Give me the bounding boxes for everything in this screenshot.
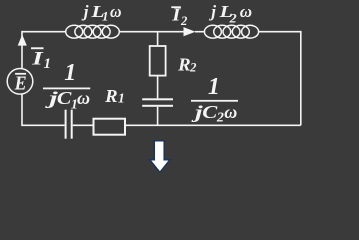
svg-text:2: 2 — [180, 14, 187, 28]
capacitor C1 plate left — [65, 110, 67, 139]
label R2 — [177, 55, 196, 75]
svg-text:ω: ω — [240, 2, 252, 21]
block arrow marker (down) — [150, 141, 170, 173]
svg-text:2: 2 — [216, 111, 224, 126]
svg-text:1: 1 — [102, 9, 109, 24]
current arrow I2 — [184, 27, 196, 36]
label 1/(jC1w) fraction — [43, 60, 90, 113]
svg-text:R: R — [104, 86, 118, 106]
capacitor C1 plate right — [71, 110, 73, 139]
current arrow I1 — [18, 35, 27, 46]
wire: segment (arrow to L2) — [195, 31, 204, 33]
svg-text:R: R — [177, 55, 191, 75]
svg-text:1: 1 — [208, 74, 220, 100]
wire: middle branch top (tee to R2) — [157, 32, 159, 46]
resistor R1 — [94, 119, 126, 135]
capacitor C2 plate top — [142, 98, 173, 100]
inductor L1 — [66, 25, 120, 38]
inductor L2 — [204, 25, 258, 38]
svg-text:E: E — [14, 73, 27, 95]
wire: top-left segment (left corner to L1) — [22, 32, 66, 69]
svg-text:ω: ω — [110, 2, 122, 21]
wire: R2 to C2 — [157, 76, 159, 99]
resistor R2 — [150, 46, 166, 76]
label jL1w — [81, 2, 122, 24]
wire: top-middle segment (L1 to I2 arrow) — [119, 31, 184, 33]
wire: left-bottom segment (source to bottom-left corner) — [22, 94, 65, 125]
svg-text:1: 1 — [64, 60, 76, 86]
label I2 — [171, 5, 187, 28]
capacitor C2 plate bottom — [142, 105, 173, 107]
label R1 — [104, 86, 125, 106]
svg-text:1: 1 — [44, 56, 52, 72]
wire: bottom segment (R1 to bottom-right corner) — [125, 124, 301, 126]
wire: top-right segment (L2 to right corner) and right side down — [259, 32, 301, 126]
wire: C1 to R1 — [73, 124, 94, 126]
svg-text:ω: ω — [77, 88, 90, 108]
svg-text:ω: ω — [224, 102, 237, 122]
svg-text:2: 2 — [229, 10, 238, 25]
label 1/(jC2w) fraction — [190, 74, 238, 126]
svg-text:1: 1 — [118, 91, 125, 106]
label jL2w — [208, 2, 252, 25]
source E1 circle — [7, 69, 33, 95]
label I1 — [31, 47, 51, 72]
wire: C2 to bottom wire — [157, 107, 159, 126]
svg-text:2: 2 — [189, 61, 196, 75]
label E (with overbar) — [14, 73, 27, 95]
svg-text:I: I — [31, 48, 44, 69]
